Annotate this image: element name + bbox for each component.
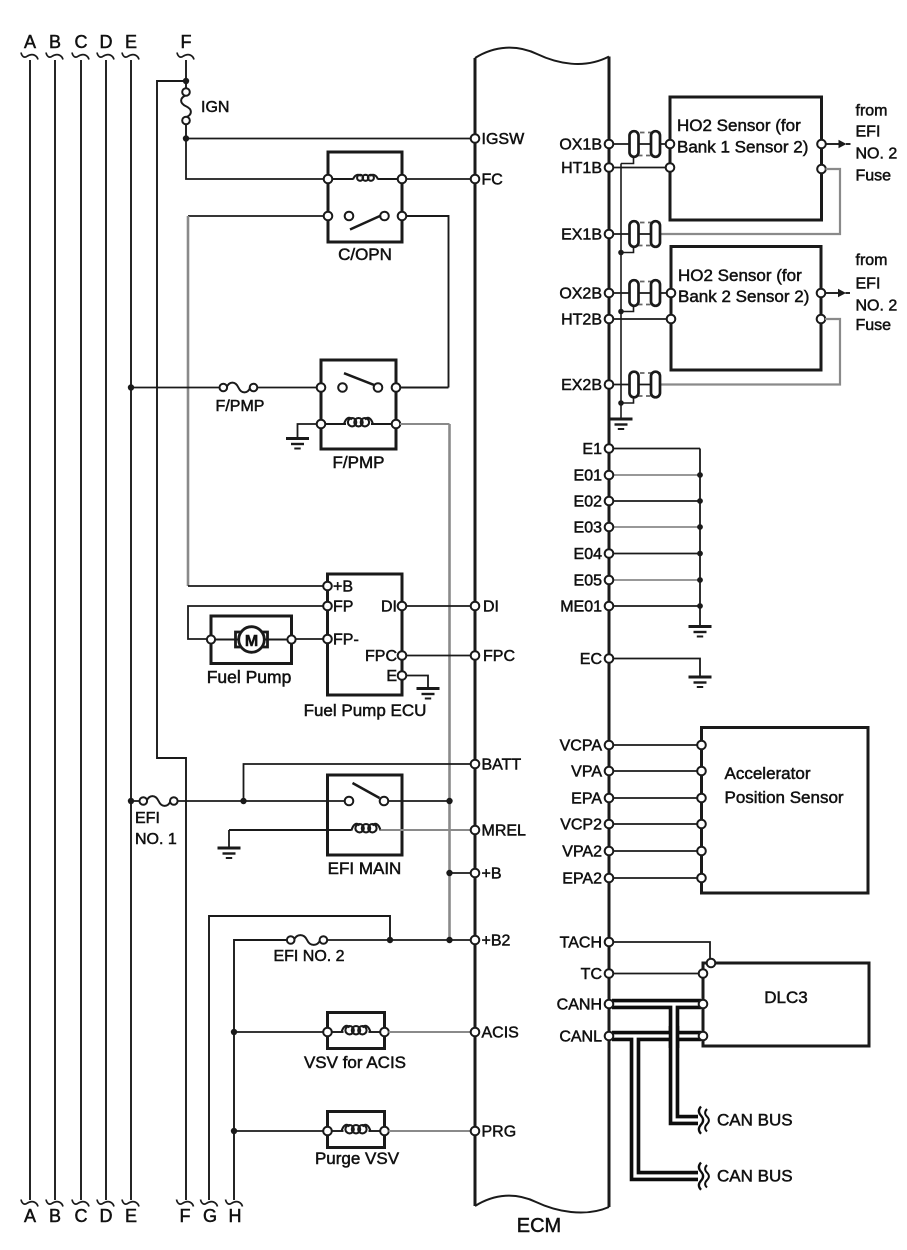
- wire E05 to ground bus: [613, 579, 700, 581]
- svg-text:FP: FP: [333, 599, 353, 616]
- ECM pin VPA2: [562, 844, 613, 861]
- ground at EC: [689, 677, 712, 687]
- svg-text:C: C: [75, 1206, 88, 1226]
- svg-text:NO. 2: NO. 2: [856, 146, 898, 163]
- ECM pin EPA: [571, 791, 613, 808]
- svg-text:+B2: +B2: [482, 933, 511, 950]
- wire Purge VSV to ECM pin PRG (gray): [389, 1130, 472, 1132]
- VSV for ACIS (solenoid): [323, 1013, 389, 1049]
- wire fuel pump to FP-: [296, 638, 324, 640]
- junction +B2 at rail: [446, 937, 452, 943]
- svg-text:ME01: ME01: [560, 599, 602, 616]
- svg-text:IGN: IGN: [201, 99, 229, 116]
- wire C/OPN switch left to +B feed riser: [188, 215, 324, 217]
- wire OX2B: ECM to shield to HO2 sensor 2: [613, 292, 667, 294]
- wire E to fuse EFI NO.1: [131, 800, 140, 802]
- wire +B row to ECM pin: [450, 872, 472, 874]
- svg-text:EFI: EFI: [856, 276, 881, 293]
- junction E05 on ground bus: [697, 577, 703, 583]
- wire +B feed riser (gray) down to Fuel Pump ECU +B: [188, 216, 324, 586]
- svg-text:M: M: [245, 633, 258, 650]
- wire FC: C/OPN coil to ECM pin FC: [406, 178, 472, 180]
- svg-text:ECM: ECM: [517, 1215, 561, 1237]
- junction drain EX1B: [618, 250, 624, 256]
- svg-text:H: H: [229, 1206, 242, 1226]
- svg-text:TC: TC: [581, 966, 602, 983]
- svg-text:Purge VSV: Purge VSV: [315, 1149, 400, 1168]
- svg-text:from: from: [856, 103, 888, 120]
- wire E1 to ground bus: [613, 448, 700, 450]
- svg-text:VPA: VPA: [571, 764, 602, 781]
- ECM box (wavy top and bottom): [475, 48, 609, 1213]
- svg-text:ACIS: ACIS: [482, 1025, 519, 1042]
- svg-text:E01: E01: [574, 468, 603, 485]
- wire EX2B: ECM to shield: [613, 384, 651, 386]
- junction F / branch to left riser: [183, 78, 189, 84]
- svg-text:TACH: TACH: [560, 935, 602, 952]
- junction E04 on ground bus: [697, 551, 703, 557]
- ECM pin VCPA: [560, 738, 614, 755]
- ECM pin CANL: [559, 1029, 613, 1046]
- wire HO2-1 heater loop to EX1B shield (gray): [660, 169, 840, 234]
- junction H to VSV for ACIS: [231, 1029, 237, 1035]
- svg-text:CANH: CANH: [557, 997, 602, 1014]
- svg-text:Fuse: Fuse: [856, 168, 892, 185]
- svg-text:EFI: EFI: [856, 124, 881, 141]
- CAN wire CANH (twisted pair, ECM to DLC3): [612, 999, 701, 1010]
- svg-text:EFI MAIN: EFI MAIN: [328, 859, 402, 878]
- junction E line to EFI NO.1 fuse: [128, 798, 134, 804]
- ECM pin +B: [471, 866, 502, 883]
- junction E02 on ground bus: [697, 498, 703, 504]
- svg-text:F: F: [181, 32, 192, 52]
- svg-text:B: B: [49, 32, 61, 52]
- wire BATT branch to ECM pin BATT: [244, 764, 472, 801]
- ECM pin FPC: [471, 648, 515, 665]
- wire EX1B: ECM to shield: [613, 233, 651, 235]
- pin labels Fuel Pump ECU: [333, 579, 397, 686]
- fuse IGN: [181, 88, 191, 124]
- svg-text:OX1B: OX1B: [559, 137, 602, 154]
- svg-text:C: C: [75, 32, 88, 52]
- junction ME01 on ground bus: [697, 603, 703, 609]
- svg-text:E02: E02: [574, 494, 603, 511]
- svg-text:EFI NO. 2: EFI NO. 2: [273, 948, 344, 965]
- svg-text:VCPA: VCPA: [560, 738, 603, 755]
- ECM pin OX2B: [559, 286, 613, 303]
- wire VPA to accelerator position sensor: [613, 770, 698, 772]
- svg-text:FP-: FP-: [333, 632, 359, 649]
- junction E01 on ground bus: [697, 472, 703, 478]
- svg-text:+B: +B: [482, 866, 502, 883]
- ground at shield drain bus: [610, 419, 633, 429]
- wire E to ground: [406, 676, 428, 688]
- svg-text:Bank 2 Sensor 2): Bank 2 Sensor 2): [678, 287, 809, 306]
- relay F/PMP: [317, 360, 401, 449]
- shield drain OX1B: [621, 157, 634, 163]
- shield symbol at EX2B: [630, 372, 662, 398]
- wire H feed from fuse EFI NO.2 (left): [234, 940, 288, 1200]
- break symbol CAN BUS upper: [699, 1107, 703, 1134]
- svg-text:+B: +B: [333, 579, 353, 596]
- svg-text:A: A: [24, 1206, 36, 1226]
- shield symbol at OX1B: [630, 131, 662, 157]
- ground at Fuel Pump ECU E: [417, 689, 440, 699]
- Purge VSV (solenoid): [323, 1112, 389, 1148]
- svg-text:from: from: [856, 252, 888, 269]
- svg-text:E: E: [125, 32, 137, 52]
- fuse EFI NO. 1: [140, 796, 178, 806]
- ECM pin E01: [574, 468, 614, 485]
- svg-text:C/OPN: C/OPN: [338, 245, 392, 264]
- svg-text:PRG: PRG: [482, 1124, 517, 1141]
- junction E03 on ground bus: [697, 524, 703, 530]
- ECM pin HT1B: [561, 160, 613, 177]
- wire F/PMP coil left to ground: [298, 424, 318, 437]
- ECM pin EC: [580, 651, 614, 668]
- junction H to Purge VSV: [231, 1128, 237, 1134]
- ECM pin ACIS: [471, 1025, 519, 1042]
- svg-text:EX1B: EX1B: [561, 227, 602, 244]
- wire harness line B (vertical): [46, 32, 63, 1226]
- wire fuse EFI NO.1 to EFI MAIN switch: [178, 800, 346, 802]
- wire H to VSV for ACIS: [234, 1031, 324, 1033]
- wire EC to ground: [613, 659, 700, 676]
- wire fuse EFI NO.2 to ECM pin +B2: [327, 939, 472, 941]
- svg-text:E05: E05: [574, 573, 603, 590]
- shield drain OX2B: [621, 306, 634, 311]
- svg-text:BATT: BATT: [482, 757, 522, 774]
- ECM pin DI: [471, 599, 499, 616]
- wire E1 ground bus (vertical): [699, 449, 701, 626]
- ECM pin E1: [582, 441, 613, 458]
- wire EFI MAIN switch out to +B rail: [388, 800, 450, 802]
- svg-text:EC: EC: [580, 651, 602, 668]
- DLC3 box: [699, 959, 869, 1046]
- svg-text:HT1B: HT1B: [561, 160, 602, 177]
- ground at EFI MAIN coil: [218, 848, 241, 858]
- wire EPA2 to accelerator position sensor: [613, 877, 698, 879]
- svg-text:Fuel Pump: Fuel Pump: [207, 667, 292, 687]
- wire VCPA to accelerator position sensor: [613, 744, 698, 746]
- wire C/OPN switch right down to F/PMP switch: [406, 216, 449, 388]
- svg-text:CAN BUS: CAN BUS: [717, 1167, 793, 1186]
- wire E to fuse F/PMP: [131, 387, 220, 389]
- CANH branch crossing overlay: [669, 1026, 680, 1048]
- wire IGN fuse to IGSW junction: [185, 124, 187, 139]
- ECM pin IGSW: [471, 131, 525, 148]
- CAN wire CANL (twisted pair, ECM to DLC3): [612, 1031, 701, 1042]
- junction +B row: [446, 870, 452, 876]
- label EFI NO. 1: [135, 810, 177, 848]
- wire harness line D (vertical): [97, 32, 114, 1226]
- fuse F/PMP: [220, 383, 258, 393]
- wire H to Purge VSV: [234, 1130, 324, 1132]
- ECM pin EX1B: [561, 227, 613, 244]
- wire E03 to ground bus: [613, 526, 700, 528]
- shield symbol at EX1B: [630, 221, 662, 247]
- wire E01 to ground bus: [613, 474, 700, 476]
- svg-text:F/PMP: F/PMP: [216, 398, 265, 415]
- shield drain EX2B: [621, 398, 634, 403]
- wire F/PMP switch right to riser: [400, 387, 449, 389]
- svg-text:E04: E04: [574, 546, 603, 563]
- svg-text:A: A: [24, 32, 36, 52]
- relay C/OPN: [324, 152, 407, 242]
- svg-text:NO. 1: NO. 1: [135, 831, 177, 848]
- svg-text:E: E: [386, 668, 397, 685]
- svg-text:E03: E03: [574, 520, 603, 537]
- ECM pin CANH: [557, 997, 614, 1014]
- wire G loop (fuse output up and left to G riser): [209, 916, 390, 1200]
- svg-text:EFI: EFI: [135, 810, 160, 827]
- wire fuse F/PMP to relay: [257, 387, 317, 389]
- shield drain bus (vertical to ground): [620, 164, 622, 418]
- bottom break and label G: [201, 1200, 218, 1227]
- ECM pin ME01: [560, 599, 613, 616]
- break symbol CAN BUS lower: [699, 1163, 703, 1190]
- wire harness line A (vertical): [21, 32, 38, 1226]
- svg-text:DI: DI: [381, 599, 397, 616]
- svg-text:F/PMP: F/PMP: [333, 453, 385, 472]
- junction drain EX2B: [618, 400, 624, 406]
- wire VCP2 to accelerator position sensor: [613, 823, 698, 825]
- wire TC to DLC3: [613, 973, 699, 975]
- wire FP to fuel pump: [188, 606, 324, 639]
- svg-text:CAN BUS: CAN BUS: [717, 1111, 793, 1130]
- HO2 sensor bank1 box: [666, 97, 826, 220]
- svg-text:F: F: [180, 1206, 191, 1226]
- accelerator position sensor box: [697, 728, 868, 894]
- ECM pin FC: [471, 172, 503, 189]
- wire E02 to ground bus: [613, 500, 700, 502]
- ECM pin E03: [574, 520, 614, 537]
- ECM pin E04: [574, 546, 614, 563]
- CAN BUS branch from CANL: [635, 1038, 698, 1176]
- ECM pin VCP2: [560, 817, 613, 834]
- wire F top segment: [185, 60, 187, 89]
- CAN BUS branch from CANH: [674, 1006, 698, 1120]
- svg-text:DI: DI: [483, 599, 499, 616]
- svg-text:Bank 1 Sensor 2): Bank 1 Sensor 2): [677, 138, 808, 157]
- junction BATT branch: [240, 798, 246, 804]
- svg-text:DLC3: DLC3: [764, 988, 807, 1007]
- svg-text:IGSW: IGSW: [482, 131, 526, 148]
- wire EPA to accelerator position sensor: [613, 797, 698, 799]
- wire VSV to ECM pin ACIS (gray): [389, 1031, 472, 1033]
- svg-text:MREL: MREL: [482, 823, 527, 840]
- box Fuel Pump ECU: [323, 574, 406, 695]
- svg-text:VSV for ACIS: VSV for ACIS: [304, 1053, 406, 1072]
- svg-text:Position Sensor: Position Sensor: [725, 788, 844, 807]
- svg-text:EX2B: EX2B: [561, 377, 602, 394]
- svg-text:Accelerator: Accelerator: [725, 764, 811, 783]
- wire IGSW: fuse to ECM pin IGSW: [186, 138, 472, 140]
- svg-text:FPC: FPC: [483, 648, 515, 665]
- junction E line to F/PMP fuse: [128, 384, 134, 390]
- svg-text:NO. 2: NO. 2: [856, 298, 898, 315]
- svg-text:E1: E1: [582, 441, 602, 458]
- svg-text:OX2B: OX2B: [559, 286, 602, 303]
- node F (top) with break symbol and label: [177, 32, 194, 60]
- HO2 sensor bank2 box: [667, 247, 826, 371]
- label from EFI NO. 2 Fuse (bank1): [856, 103, 898, 185]
- svg-text:VCP2: VCP2: [560, 817, 602, 834]
- wire harness line C (vertical): [72, 32, 89, 1226]
- ground at E1 bus: [689, 627, 712, 637]
- ECM pin EX2B: [561, 377, 613, 394]
- svg-text:EPA2: EPA2: [562, 871, 602, 888]
- junction drain OX2B: [618, 309, 624, 315]
- arrow to EFI NO.2 fuse (bank1): [826, 140, 851, 148]
- ECM pin BATT: [471, 757, 522, 774]
- wire branch F to left riser (down to EFI MAIN feed / bottom F): [157, 81, 186, 1200]
- shield symbol at OX2B: [630, 280, 662, 306]
- wire HT1B: ECM to HO2 sensor 1: [613, 167, 666, 169]
- wire DI: Fuel Pump ECU to ECM: [406, 605, 472, 607]
- junction G loop: [387, 937, 393, 943]
- wire E04 to ground bus: [613, 553, 700, 555]
- ECM pin +B2: [471, 933, 511, 950]
- wire OX1B: ECM to shield to HO2 sensor 1: [613, 143, 666, 145]
- svg-text:HO2 Sensor (for: HO2 Sensor (for: [678, 266, 802, 285]
- svg-text:FC: FC: [482, 172, 503, 189]
- ECM pin VPA: [571, 764, 613, 781]
- bottom break and label H: [226, 1200, 243, 1227]
- arrow to EFI NO.2 fuse (bank2): [825, 289, 850, 297]
- ECM pin TACH: [560, 935, 614, 952]
- svg-text:EPA: EPA: [571, 791, 602, 808]
- fuse EFI NO. 2: [287, 935, 327, 945]
- svg-text:B: B: [49, 1206, 61, 1226]
- shield drain EX1B: [621, 247, 634, 252]
- wire HT2B: ECM to HO2 sensor 2: [613, 318, 667, 320]
- wire VPA2 to accelerator position sensor: [613, 850, 698, 852]
- ground at F/PMP coil: [286, 439, 309, 449]
- svg-text:HT2B: HT2B: [561, 312, 602, 329]
- motor fuel pump: [207, 616, 296, 664]
- svg-text:HO2 Sensor (for: HO2 Sensor (for: [677, 116, 801, 135]
- ECM pin OX1B: [559, 137, 613, 154]
- svg-text:D: D: [100, 32, 113, 52]
- wire harness line E (vertical): [122, 32, 139, 1226]
- svg-text:VPA2: VPA2: [562, 844, 602, 861]
- relay EFI MAIN: [328, 775, 403, 855]
- svg-text:D: D: [100, 1206, 113, 1226]
- wire F/PMP coil right to +B rail riser (gray): [400, 424, 450, 940]
- ECM pin MREL: [471, 823, 526, 840]
- svg-text:E: E: [125, 1206, 137, 1226]
- svg-text:Fuel Pump ECU: Fuel Pump ECU: [304, 701, 427, 720]
- ECM pin E02: [574, 494, 614, 511]
- ECM pin TC: [581, 966, 614, 983]
- ECM pin E05: [574, 573, 614, 590]
- svg-text:FPC: FPC: [365, 648, 397, 665]
- svg-text:CANL: CANL: [559, 1029, 602, 1046]
- svg-text:Fuse: Fuse: [856, 317, 892, 334]
- junction IGSW branch: [183, 135, 189, 141]
- bottom break and label F: [177, 1200, 194, 1227]
- wire TACH to DLC3: [613, 942, 710, 959]
- svg-text:G: G: [203, 1206, 217, 1226]
- wire FPC: Fuel Pump ECU to ECM: [406, 655, 472, 657]
- ECM pin PRG: [471, 1124, 516, 1141]
- ECM pin EPA2: [562, 871, 613, 888]
- ECM pin HT2B: [561, 312, 613, 329]
- junction +B rail top: [446, 798, 452, 804]
- label from EFI NO. 2 Fuse (bank2): [856, 252, 898, 334]
- wire ME01 to ground bus: [613, 605, 700, 607]
- wire F down to C/OPN coil row: [186, 139, 325, 180]
- wire HO2-2 heater loop to EX2B shield (gray): [660, 319, 840, 385]
- wire MREL: coil to ECM pin MREL (gray): [229, 830, 472, 847]
